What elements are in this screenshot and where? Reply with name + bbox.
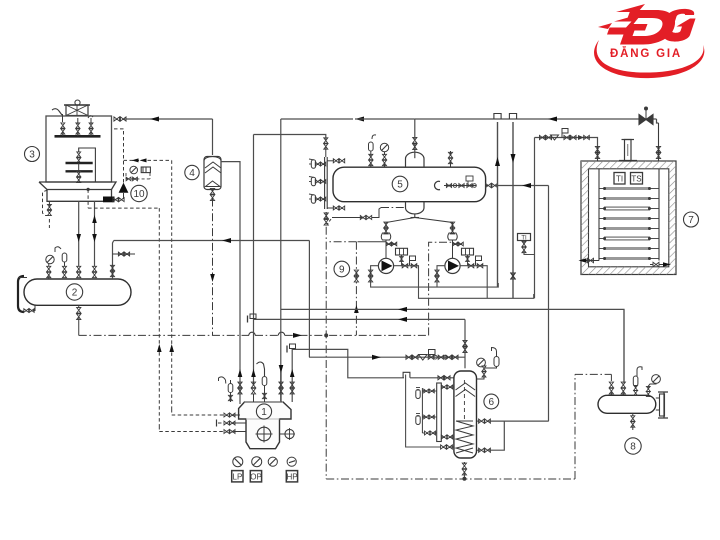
V2 nozzle4 valves	[92, 266, 96, 271]
svg-text:4: 4	[189, 168, 195, 179]
pump2 float box	[462, 248, 474, 255]
bottom dash-dot header	[326, 478, 575, 480]
V6 header top valves	[441, 385, 446, 389]
V5 manifold column	[324, 157, 326, 209]
pump1 discharge check	[402, 264, 408, 268]
oil separator flag	[429, 350, 436, 355]
top header over vessel5	[415, 118, 657, 120]
svg-text:8: 8	[630, 441, 636, 452]
tower coil bar 1	[66, 162, 93, 164]
tower downcomer pipe A	[78, 201, 80, 266]
pump1 drain dashdot	[355, 242, 357, 336]
discharge riser marks	[290, 369, 295, 377]
riser B valve	[511, 273, 516, 280]
tower spray branch 3 valve	[89, 123, 93, 128]
vessel V5 body	[333, 167, 486, 202]
oil dashed line 1	[171, 409, 173, 415]
gauge HP	[287, 457, 296, 466]
Dang Gia logo swoosh	[594, 40, 704, 78]
vessel V2 level bottom valves	[24, 309, 29, 313]
suction line from manifold	[253, 135, 255, 383]
coldroom inner wall	[589, 169, 669, 267]
manifold to V5 top valves	[327, 160, 334, 162]
hop over suction line	[249, 332, 255, 335]
circle label 2	[66, 284, 82, 300]
compressor crank cross	[257, 427, 271, 441]
supply check arrow	[578, 135, 584, 140]
discharge line B	[309, 356, 406, 358]
supply strainer funnel	[551, 135, 559, 140]
compressor body	[239, 402, 291, 449]
svg-text:OP: OP	[250, 473, 262, 482]
vessel V2 level bracket	[18, 276, 24, 312]
V5 manifold top valves	[324, 138, 328, 143]
coldroom bottom right valve	[659, 264, 668, 266]
V2 nozzle5 valves	[110, 265, 114, 270]
flow arrow to tower	[150, 117, 159, 122]
equalizer line to V5	[495, 185, 549, 187]
TI box coldroom	[614, 173, 625, 185]
manifold nozzle group 1	[311, 160, 315, 169]
Dang Gia logo D letter	[607, 10, 675, 45]
pump2 discharge	[460, 266, 487, 299]
pump suction slant right	[415, 218, 453, 225]
V5 gauge nozzle	[380, 143, 388, 151]
dashed line basin to compressor	[88, 207, 159, 209]
circle label 7	[684, 212, 699, 227]
pump drain valves	[354, 270, 358, 276]
V8 nozzle1	[610, 374, 612, 381]
tower makeup water hook	[52, 109, 62, 115]
discharge flag	[286, 346, 288, 353]
svg-text:6: 6	[489, 397, 495, 408]
basin drain dashed pipe	[43, 190, 50, 216]
dashed riser right of tower	[171, 160, 173, 409]
hot gas branch corner	[280, 119, 282, 404]
coldroom feed riser	[534, 138, 536, 299]
vessel6 feed riser	[464, 319, 466, 368]
coldroom outer wall	[581, 161, 676, 275]
downcomer B arrow	[92, 215, 97, 223]
vessel V4 chevrons	[205, 162, 221, 173]
pipe down to dryer	[212, 119, 214, 155]
V5 top dome	[406, 152, 425, 167]
downcomer A arrow	[76, 234, 81, 242]
pump1 bypass loop	[371, 266, 499, 287]
pump1 bypass valves	[369, 270, 373, 276]
bottom dash-dot riser	[574, 374, 576, 479]
V6 chevrons	[456, 383, 476, 397]
V6 bottom outlet	[463, 462, 465, 464]
dash-dot header mid	[255, 334, 278, 336]
oil return arrow	[398, 307, 407, 312]
V5 purge valve stub	[448, 152, 452, 157]
tower basin tank	[47, 190, 112, 202]
TI box	[518, 234, 531, 241]
Dang Gia logo G letter	[663, 9, 695, 42]
V5 bottom dome	[406, 202, 425, 214]
suction return flag	[247, 316, 249, 323]
V5 relief capsule nozzle	[369, 142, 374, 151]
hot gas arrow	[355, 117, 364, 122]
vessel V4 bottom cone	[206, 181, 221, 187]
coldroom supply pipe	[535, 138, 598, 147]
dash-dot header east	[285, 334, 429, 336]
TI tap valves	[522, 241, 526, 246]
equalizer arrow	[522, 183, 531, 188]
TI instrument tap	[524, 251, 535, 255]
suction drop 4 line	[280, 369, 282, 402]
pump P10	[119, 183, 129, 193]
discharge into V6	[410, 377, 454, 379]
basin sensor dashed tap	[87, 188, 90, 191]
V8 nozzle4 gauge	[652, 375, 661, 384]
cooling tower T3 body	[46, 116, 112, 182]
V2 side tap valves	[113, 253, 136, 255]
V5 liquid stub corner	[372, 208, 381, 218]
compressor shading	[246, 418, 280, 420]
pump P2	[445, 258, 460, 273]
suction drop 3 hook	[257, 362, 265, 376]
label box LP	[232, 471, 243, 482]
V6 lower right port	[477, 449, 481, 451]
oil dashed line 3	[158, 426, 160, 432]
vessel V4 drain dash-dot	[212, 199, 214, 336]
dashed instrument box	[126, 178, 150, 180]
pump2 float box valves	[467, 255, 469, 263]
manifold to V5 bottom valves	[327, 207, 334, 209]
gauge OP	[252, 457, 262, 467]
pump P10 top dashed to tower	[112, 128, 124, 130]
oil separator train	[406, 356, 465, 358]
riser A arrow	[495, 157, 500, 166]
svg-text:ĐẴNG GIA: ĐẴNG GIA	[610, 47, 682, 60]
supply flag	[561, 133, 563, 138]
manifold drain dash-dot	[325, 212, 327, 479]
pump drain arrow	[354, 305, 359, 313]
pump2 discharge check	[468, 264, 474, 268]
svg-text:10: 10	[133, 189, 145, 200]
header riser to pumps	[429, 242, 453, 335]
V6 nozzle group 2	[416, 416, 420, 425]
vessel V4 outlet valves	[210, 188, 214, 194]
gauge 3	[268, 457, 277, 466]
coldroom right header	[658, 169, 660, 261]
dashed riser arrow up	[169, 344, 174, 352]
V2 nozzle2 valves	[62, 266, 66, 271]
svg-text:7: 7	[688, 215, 694, 226]
pump1 float box branch	[386, 243, 396, 245]
V6 manifold bottom valves	[422, 432, 424, 434]
riser A pump discharge	[497, 122, 499, 287]
V6 outer loop valves	[441, 445, 447, 449]
tower coil upper valve	[77, 152, 81, 157]
pump 2 suction branch	[452, 224, 454, 232]
V2 nozzle5 riser	[113, 241, 114, 280]
V6 gauge relief assy	[477, 376, 485, 380]
pump2 bypass valves	[435, 270, 439, 276]
vessel V2 vapor line	[114, 240, 310, 242]
supply valve pair 2	[564, 135, 570, 139]
dash-dot header west	[79, 334, 249, 336]
V5 oil drain train	[444, 185, 476, 187]
compressor side port	[280, 433, 285, 435]
pump suction slant left	[386, 218, 415, 225]
tower downcomer pipe B	[94, 201, 96, 266]
circle label 10	[131, 185, 147, 201]
gauge LP	[233, 457, 243, 467]
V2 nozzle1 valves	[47, 266, 51, 271]
coldroom wall hatching	[581, 161, 676, 275]
pump2 float box branch	[453, 243, 463, 245]
equalizer riser	[548, 186, 550, 422]
vessel V2 body	[24, 279, 131, 305]
V2 bottom outlet	[78, 305, 80, 308]
discharge hop over drop leg	[403, 372, 410, 378]
V8 nozzle3 capsule	[633, 376, 638, 386]
coldroom top right stem	[658, 123, 660, 161]
pump P10 column dashed	[123, 131, 125, 183]
manifold nozzle group 3	[311, 195, 315, 204]
svg-text:1: 1	[261, 407, 267, 418]
circle label 8	[625, 438, 641, 454]
svg-text:TS: TS	[631, 175, 641, 184]
basin outlet black box	[104, 197, 115, 202]
pump P10 suction valves	[113, 198, 118, 202]
oil dashed line 2	[216, 420, 218, 427]
basin drain valves	[47, 204, 51, 209]
tower basin trapezoid	[39, 182, 116, 190]
V5 right cap valve	[485, 183, 491, 187]
control box at pump 10	[141, 167, 150, 173]
svg-text:TI: TI	[616, 175, 623, 184]
tower coil bar 2	[66, 170, 93, 172]
riser B liquid down	[512, 122, 514, 298]
coldroom coil bank	[604, 187, 650, 190]
circle label 6	[484, 394, 499, 409]
svg-text:3: 3	[29, 149, 35, 160]
suction return pipe	[657, 119, 659, 123]
manifold drain valves	[324, 213, 328, 219]
oil return header	[281, 309, 624, 382]
vessel V4 drain arrow	[210, 274, 215, 282]
V5 riser to top header	[414, 119, 416, 140]
svg-text:LP: LP	[233, 473, 243, 482]
manifold nozzle group 2	[311, 177, 315, 186]
discharge B arrow	[372, 355, 381, 360]
basin drain stub	[48, 219, 50, 228]
V5 liquid dash-dot stub	[381, 207, 406, 209]
circle label 9	[334, 261, 350, 277]
V5 dome riser	[414, 143, 416, 158]
pump1 float box valves	[401, 255, 403, 263]
suction strainer capsule left	[219, 377, 226, 381]
V6 upper right port	[477, 420, 481, 422]
hot gas west segment	[281, 118, 353, 120]
top header arrow west	[548, 117, 557, 122]
tower makeup valve	[61, 123, 65, 128]
Dang Gia logo D speed dash	[598, 4, 645, 29]
V6 outer loop	[406, 381, 441, 447]
tower spray branch 2 valve	[76, 123, 80, 128]
V8 bottom drain	[632, 413, 634, 416]
suction header down	[308, 241, 310, 358]
svg-text:5: 5	[397, 179, 403, 190]
control valve	[639, 115, 653, 125]
circle label 4	[185, 165, 199, 179]
cooling tower T3 fan housing	[66, 105, 88, 116]
vessel V8 body	[598, 395, 656, 413]
valve pair tower condenser line	[114, 117, 120, 121]
V6 centerline	[463, 380, 465, 421]
pipe tower to dryer top	[124, 118, 213, 120]
pump P1	[378, 258, 393, 273]
coldroom top left stem	[597, 146, 599, 161]
V6 coil	[456, 421, 473, 453]
label box OP	[250, 471, 261, 482]
dashed riser from basin line	[158, 208, 160, 426]
discharge line A	[292, 349, 404, 402]
V2 nozzle2 relief capsule	[62, 253, 67, 262]
coldroom left header	[598, 169, 600, 261]
riser B arrow	[511, 154, 516, 163]
circle label 1	[256, 404, 271, 419]
top header hop 1	[494, 114, 501, 120]
dash-dot to vessel8	[575, 373, 611, 375]
V8 nozzle2	[621, 382, 625, 388]
instrument dashed branch	[124, 159, 172, 161]
label box HP	[286, 471, 297, 482]
vessel V4 side outlet pipe	[221, 162, 240, 404]
circle label 3	[25, 147, 40, 162]
V5 liquid stub valves	[360, 215, 365, 219]
V2 nozzle3 valves	[77, 266, 81, 271]
top header hop 2	[509, 114, 516, 120]
V5 oil pot symbol	[435, 181, 440, 189]
V2 nozzle1 gauge	[46, 255, 54, 263]
pressure gauge at pump 10	[130, 166, 138, 174]
vapor line arrow	[222, 238, 231, 243]
pump2 bypass loop	[437, 266, 445, 282]
vessel V6 body	[454, 371, 477, 458]
tower coil inlet pipe	[79, 148, 96, 182]
dashed riser 2 arrow up	[157, 344, 162, 352]
manifold supply line	[254, 135, 326, 141]
suction drop 1 marks	[238, 369, 243, 377]
tower coil lower valve	[77, 171, 81, 176]
header junction dot	[324, 333, 328, 337]
TS box coldroom	[631, 173, 643, 185]
pump1 discharge	[394, 266, 534, 299]
cooling tower T3 fan motor circle	[75, 100, 80, 105]
vessel V4 body	[204, 157, 221, 190]
pump1 float box	[396, 248, 408, 255]
V6 mini manifold line	[421, 388, 423, 433]
V6 header bottom valves	[441, 435, 446, 439]
pump 1 suction branch	[385, 224, 387, 232]
header flow arrow	[293, 333, 302, 338]
V6 nozzle group 1	[416, 390, 420, 399]
suction return line to compressor	[253, 318, 465, 320]
V5 dome riser valves	[413, 137, 417, 143]
coldroom sensor well	[625, 140, 632, 162]
instrument branch arrows	[132, 158, 139, 162]
suction return arrow	[398, 317, 407, 322]
vessel6 feed valves	[463, 340, 467, 346]
svg-text:HP: HP	[286, 473, 297, 482]
suction drop 2 line	[253, 394, 255, 402]
pump1 branch dashdot	[358, 241, 386, 243]
tower spray header	[55, 135, 101, 138]
svg-text:9: 9	[339, 264, 345, 275]
circle label 5	[392, 176, 408, 192]
V8 level bracket	[658, 392, 668, 418]
V6 liquid header	[437, 383, 442, 442]
svg-text:2: 2	[72, 287, 78, 298]
V5 oil drain flag	[466, 176, 473, 181]
hop over vessel4 suction	[278, 332, 284, 335]
coldroom bottom left valve	[586, 260, 599, 262]
supply valve pair 1	[539, 135, 545, 139]
